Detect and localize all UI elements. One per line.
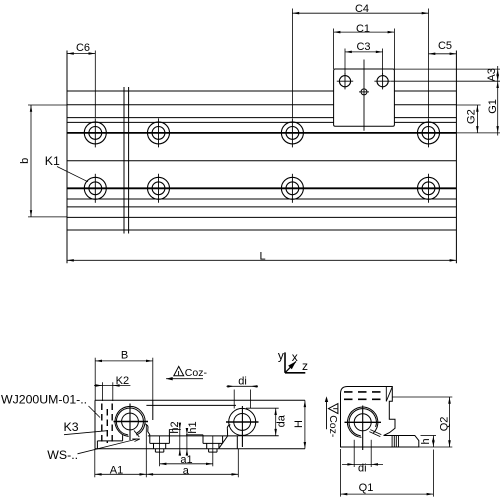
svg-text:C5: C5 bbox=[438, 40, 452, 52]
svg-text:b: b bbox=[19, 158, 31, 164]
svg-text:Q1: Q1 bbox=[359, 482, 374, 494]
svg-text:h: h bbox=[420, 438, 432, 444]
svg-text:h1: h1 bbox=[187, 421, 199, 433]
svg-text:C3: C3 bbox=[356, 41, 370, 53]
svg-text:A1: A1 bbox=[110, 464, 123, 476]
svg-text:da: da bbox=[276, 414, 288, 427]
svg-text:Coz-: Coz- bbox=[185, 367, 208, 379]
svg-text:A3: A3 bbox=[486, 68, 498, 81]
svg-text:y: y bbox=[278, 349, 284, 363]
svg-text:di: di bbox=[358, 462, 367, 474]
svg-text:WS-..: WS-.. bbox=[47, 448, 78, 462]
svg-text:B: B bbox=[121, 350, 128, 362]
svg-text:K3: K3 bbox=[64, 420, 79, 434]
svg-text:a: a bbox=[183, 465, 190, 477]
svg-text:L: L bbox=[259, 250, 265, 262]
svg-text:G2: G2 bbox=[465, 109, 477, 124]
svg-text:K2: K2 bbox=[116, 375, 129, 387]
svg-text:G1: G1 bbox=[487, 99, 499, 114]
svg-text:z: z bbox=[302, 359, 308, 373]
svg-text:C4: C4 bbox=[355, 3, 369, 15]
svg-text:C1: C1 bbox=[356, 23, 370, 35]
svg-text:H: H bbox=[293, 420, 305, 428]
svg-text:Q2: Q2 bbox=[438, 417, 450, 432]
svg-text:WJ200UM-01-..: WJ200UM-01-.. bbox=[1, 392, 87, 406]
svg-text:C6: C6 bbox=[76, 42, 90, 54]
svg-text:K1: K1 bbox=[45, 154, 60, 168]
svg-text:x: x bbox=[292, 350, 298, 364]
svg-text:h2: h2 bbox=[169, 421, 181, 433]
svg-text:Coz-: Coz- bbox=[327, 415, 339, 438]
svg-text:di: di bbox=[238, 376, 247, 388]
